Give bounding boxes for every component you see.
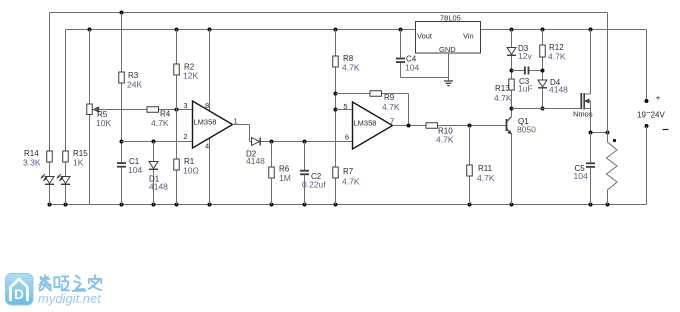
node ground junction [152,203,156,207]
resistor R11 [469,126,471,166]
svg-text:4.7K: 4.7K [342,177,360,187]
capacitor C4 [400,30,402,59]
node C5 top junction [589,131,593,135]
node inductor top junction [606,131,610,135]
svg-text:8050: 8050 [517,125,536,135]
node R2 bottom junction [175,108,179,112]
resistor R13 [509,79,515,90]
op-amp U1A LM358 [193,101,233,148]
svg-text:6: 6 [345,133,349,142]
node R6 top junction [270,140,274,144]
wire pin4 ground [209,138,211,205]
node R2 top junction [175,28,179,32]
svg-text:3.3K: 3.3K [23,158,41,168]
svg-text:R9: R9 [384,93,395,102]
svg-text:78L05: 78L05 [440,14,461,23]
svg-text:2: 2 [183,132,187,141]
svg-text:1M: 1M [279,173,291,183]
node D1 top junction [152,140,156,144]
node ground junction [175,203,179,207]
capacitor C3 [512,70,525,72]
svg-text:8: 8 [205,101,209,110]
svg-text:1K: 1K [73,158,84,168]
wire GND pin [448,53,450,81]
svg-text:4.7K: 4.7K [494,93,512,103]
node D3 top junction [510,28,514,32]
svg-text:4.7K: 4.7K [151,118,169,128]
wire R5 wiper to pin3 [93,109,193,111]
node R12 top junction [541,28,545,32]
svg-text:12v: 12v [518,51,532,61]
resistor R15 [63,151,69,162]
node ground junction [270,203,274,207]
wire R2 R1 column [176,30,178,65]
node D4 gate junction [541,107,545,111]
wire gate drive [512,108,582,110]
svg-text:4148: 4148 [549,85,568,95]
wire pin8 supply [209,30,211,112]
wire D3 column [511,30,513,48]
wire pin5 [336,109,353,111]
wire R9 feedback [336,93,409,95]
wire ground rail bottom [50,204,647,206]
resistor R6 [271,142,273,168]
potentiometer R5 [87,104,93,115]
wire R15 column [65,30,67,152]
resistor R8 [333,56,339,67]
svg-text:12K: 12K [183,71,198,81]
svg-text:7: 7 [390,117,394,126]
node Q1 collector junction [510,107,514,111]
svg-text:3: 3 [183,101,187,110]
resistor R10 [426,123,438,129]
svg-text:19~24V: 19~24V [637,108,665,119]
node C4 top junction [399,28,403,32]
node pin8 supply junction [208,28,212,32]
diode D4 [538,80,547,87]
node C3 right junction [541,69,545,73]
svg-text:1uF: 1uF [518,84,533,94]
svg-text:104: 104 [128,165,142,175]
svg-text:4148: 4148 [246,156,265,166]
node R5 top junction [88,28,92,32]
node ground junction [48,203,52,207]
wire R12 D4 column [542,30,544,46]
svg-text:R11: R11 [478,164,493,173]
svg-text:4.7K: 4.7K [436,135,454,145]
svg-text:GND: GND [439,45,456,54]
op-amp U1B LM358 [353,102,393,149]
wire 5V rail from 78L05 Vout [66,29,416,31]
node ground junction [606,203,610,207]
svg-text:Nmos: Nmos [573,110,593,119]
node pin5 junction [334,108,338,112]
resistor R1 [174,159,180,170]
capacitor C5 [590,133,592,164]
svg-text:Vin: Vin [463,32,474,41]
regulator U2 78L05 [416,22,481,54]
svg-text:24K: 24K [127,80,142,90]
svg-text:4.7K: 4.7K [382,102,400,112]
svg-text:LM358: LM358 [354,119,377,128]
wire R14 column [49,13,51,152]
resistor R2 [174,64,180,75]
node pin2 wire / C1 junction [120,140,124,144]
svg-text:4: 4 [205,142,209,151]
capacitor C1 [117,162,126,164]
svg-text:104: 104 [405,63,419,73]
svg-text:Vout: Vout [417,32,433,41]
svg-text:4.7K: 4.7K [477,173,495,183]
MOSFET Q2 Nmos [580,93,582,109]
capacitor C2 [304,142,306,171]
svg-text:10K: 10K [96,118,111,128]
svg-text:R13: R13 [495,84,510,93]
node negative terminal [645,124,649,128]
wire op-amp2 output to Q1 base [393,125,507,127]
wire top supply rail [50,12,608,14]
node C2 top junction [303,140,307,144]
wire R5 column [89,30,91,105]
svg-text:5: 5 [343,102,347,111]
svg-text:R7: R7 [343,167,354,176]
node inductor phase dot [613,139,616,142]
resistor R9 [370,91,382,97]
node ground junction [589,203,593,207]
node R11 top junction [468,124,472,128]
svg-text:0.22uf: 0.22uf [302,180,326,190]
svg-text:4148: 4148 [149,182,168,192]
node ground junction [120,203,124,207]
wire positive terminal [646,30,648,102]
wire op-amp1 output [233,124,250,126]
wire R8 R7 column [335,30,337,57]
node ground junction [468,203,472,207]
wire C1 to ground [121,168,123,205]
wire op-amp pin2 [122,141,193,143]
resistor R3 [119,72,125,83]
node Nmos drain junction [589,28,593,32]
zener D3 [507,48,516,55]
node R9 feedback junction [407,124,411,128]
node ground junction [510,203,514,207]
resistor R12 [540,45,546,57]
svg-text:4.7K: 4.7K [548,52,566,62]
wire source junction [591,132,608,134]
diode D1 [153,142,155,162]
node ground junction [208,203,212,207]
resistor R14 [47,151,53,162]
wire negative terminal [646,126,648,205]
node ground junction [303,203,307,207]
node R9 left junction [334,92,338,96]
wire R3 column [121,13,123,73]
logo watermark mydigit [5,273,205,307]
LED LED1 [45,177,54,184]
node positive terminal [645,99,649,103]
node R8 top junction [334,28,338,32]
resistor R4 [147,107,159,113]
svg-text:104: 104 [574,171,588,181]
transistor Q1 8050 [506,119,508,131]
wire top rail to inductor [607,13,609,133]
node ground junction [334,203,338,207]
ground [444,80,453,82]
svg-text:10Ω: 10Ω [183,166,199,176]
LED LED2 [61,177,70,184]
inductor L1 [607,133,618,205]
node C3 left junction [510,69,514,73]
diode D2 [252,138,260,146]
node ground junction [64,203,68,207]
svg-text:LM358: LM358 [194,118,217,127]
svg-text:D: D [14,287,24,302]
svg-text:+: + [656,93,661,103]
node R3 top junction [120,11,124,15]
wire Vin rail 19-24V [481,29,647,31]
resistor R7 [333,167,339,178]
svg-text:4.7K: 4.7K [342,63,360,73]
